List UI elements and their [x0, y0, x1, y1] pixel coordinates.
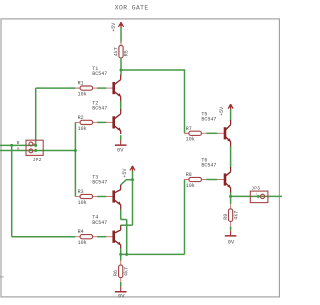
power +5V P2: [122, 166, 135, 178]
svg-text:+5V: +5V: [219, 107, 225, 116]
wire N1 to T1 collector: [120, 70, 122, 75]
node N2: [131, 178, 134, 181]
svg-text:4k7: 4k7: [123, 267, 129, 276]
transistor T4 BC547: [92, 215, 120, 249]
label A: [17, 148, 20, 152]
wire N2 down to T4 collector: [121, 180, 133, 226]
transistor T1 BC547: [92, 66, 120, 101]
title XOR GATE: [115, 5, 149, 12]
power +5V P3: [219, 104, 233, 116]
connector JP3: [250, 186, 268, 203]
wire +5V P3 to T5: [230, 110, 232, 121]
node A1: [74, 149, 77, 152]
resistor R7 10k: [184, 126, 206, 143]
wire R7 to T5 base: [206, 132, 217, 134]
svg-text:JP3: JP3: [251, 186, 260, 192]
wire R4 to T4 base: [97, 236, 106, 238]
node JP2 pin2: [34, 149, 37, 152]
wire R3 to T3 base: [97, 196, 106, 198]
svg-text:R4: R4: [78, 229, 84, 235]
wire N2 to T3 collector: [121, 180, 133, 185]
svg-text:R1: R1: [78, 81, 84, 87]
transistor T2 BC547: [92, 100, 120, 134]
wire N1 to right rail: [121, 69, 185, 71]
power +5V P1: [111, 22, 123, 32]
transistor T5 BC547: [201, 111, 230, 146]
svg-text:BC547: BC547: [92, 220, 107, 226]
svg-text:10k: 10k: [78, 126, 87, 132]
node N4: [125, 253, 128, 256]
wire R8 to T6 base: [206, 179, 217, 181]
wire +5V P2 down: [132, 171, 134, 180]
frame border: [0, 19, 279, 297]
wire R1 to T1 base: [97, 87, 106, 89]
wire bottom rail: [121, 253, 185, 255]
svg-text:XOR GATE: XOR GATE: [115, 5, 149, 12]
transistor T3 BC547: [92, 175, 120, 210]
wire R5 to node N1: [120, 58, 122, 70]
node N1: [120, 69, 123, 72]
svg-text:+5V: +5V: [122, 169, 128, 178]
ground 0V G2: [115, 282, 127, 299]
svg-text:BC547: BC547: [201, 116, 216, 122]
svg-text:0V: 0V: [117, 147, 124, 153]
svg-text:+5V: +5V: [111, 23, 117, 32]
resistor R5 4k7: [113, 40, 129, 62]
transistor T6 BC547: [201, 158, 230, 193]
svg-text:R8: R8: [186, 172, 192, 178]
svg-text:4k7: 4k7: [233, 211, 239, 220]
svg-text:BC547: BC547: [92, 71, 107, 77]
wire T2 emitter to ground: [120, 135, 122, 140]
svg-text:0V: 0V: [118, 293, 125, 299]
svg-text:R7: R7: [186, 126, 192, 132]
ground 0V G3: [225, 227, 237, 246]
resistor R9 4k7: [223, 204, 239, 226]
svg-text:R9: R9: [223, 214, 229, 220]
resistor R1 10k: [75, 81, 97, 98]
svg-text:10k: 10k: [78, 92, 87, 98]
svg-text:R3: R3: [78, 189, 84, 195]
ground 0V G1: [115, 140, 127, 153]
wire T5 emitter to T6 collector: [230, 146, 232, 167]
svg-text:R2: R2: [78, 115, 84, 121]
wire B riser to R1: [36, 88, 76, 145]
svg-text:10k: 10k: [78, 200, 87, 206]
svg-text:0V: 0V: [228, 239, 235, 245]
node N3: [119, 253, 122, 256]
svg-text:10k: 10k: [186, 183, 195, 189]
node B1: [10, 144, 13, 147]
wire T4 emitter down: [120, 248, 122, 254]
wire N5 to JP3 and edge: [231, 195, 282, 197]
wire T1 emitter to T2 collector: [120, 101, 122, 110]
wire A riser R2-R3: [74, 122, 76, 196]
wire rail up to R8: [184, 180, 186, 255]
resistor R2 10k: [75, 115, 97, 132]
wire net A: [0, 150, 75, 152]
resistor R4 10k: [75, 229, 97, 246]
wire net B: [0, 144, 36, 146]
wire T6 emitter to node N5: [230, 192, 232, 196]
wire T3 emitter jog: [121, 209, 127, 254]
connector JP2: [26, 140, 43, 163]
resistor R8 10k: [184, 172, 206, 189]
svg-text:10k: 10k: [186, 137, 195, 143]
resistor R6 4k7: [113, 254, 129, 282]
svg-text:BC547: BC547: [92, 180, 107, 186]
wire +5V to R5: [120, 28, 122, 43]
svg-text:R6: R6: [113, 270, 119, 276]
node JP2 pin1: [34, 144, 37, 147]
wire N5 down to R9: [230, 196, 232, 204]
resistor R3 10k: [75, 189, 97, 206]
svg-text:BC547: BC547: [92, 106, 107, 112]
wire B down-left riser: [12, 145, 76, 236]
wire R2 to T2 base: [97, 121, 106, 123]
wire right rail down to R7: [184, 69, 186, 133]
label B: [17, 142, 20, 146]
node N5: [229, 195, 232, 198]
svg-text:JP2: JP2: [33, 157, 42, 163]
svg-text:10k: 10k: [78, 240, 87, 246]
svg-text:BC547: BC547: [201, 163, 216, 169]
svg-text:4k7: 4k7: [113, 47, 119, 56]
svg-text:R5: R5: [124, 50, 130, 56]
